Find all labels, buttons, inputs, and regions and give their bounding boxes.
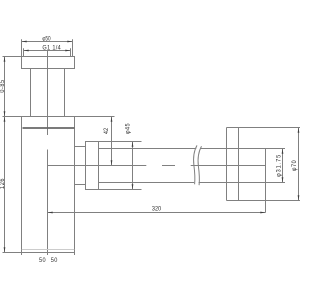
outlet stub bottom bbox=[75, 184, 86, 186]
dimension 42 bottom arrow bbox=[111, 160, 113, 165]
outer tube top bbox=[99, 141, 142, 143]
svg-text:42: 42 bbox=[104, 128, 110, 134]
svg-text:0-85: 0-85 bbox=[0, 79, 6, 92]
pipe centerline right segment bbox=[191, 165, 266, 167]
dimension 50 50 line bbox=[3, 252, 75, 254]
vertical centerline lower segment bbox=[47, 150, 49, 256]
dimension phi50 line bbox=[22, 41, 73, 43]
dimension phi31.75 bottom arrow bbox=[282, 177, 284, 182]
svg-text:50: 50 bbox=[51, 258, 58, 264]
cup right wall bbox=[74, 117, 76, 250]
cup bottom bbox=[22, 249, 75, 251]
dimension phi45 text bbox=[125, 123, 131, 134]
compression nut bbox=[86, 142, 99, 190]
pipe end edge bbox=[265, 149, 267, 213]
pipe bottom line right of break bbox=[199, 182, 266, 184]
dimension 0-85 text bbox=[0, 79, 6, 92]
wall flange front face bbox=[226, 128, 228, 201]
dimension phi45 bottom arrow bbox=[132, 184, 134, 189]
dimension phi45 top arrow bbox=[132, 142, 134, 147]
pipe centerline long segment bbox=[48, 165, 147, 167]
top flange top line extended to left dimension bbox=[3, 56, 22, 58]
dimension 42 top arrow bbox=[111, 117, 113, 122]
dimension phi50 text bbox=[42, 36, 50, 43]
dimension 320 left arrow bbox=[48, 212, 53, 214]
dimension 320 right arrow bbox=[260, 212, 265, 214]
dimension G1 1/4 line bbox=[24, 50, 71, 52]
tailpiece wall left bbox=[30, 69, 32, 117]
pipe break left curve bbox=[194, 145, 197, 184]
dimension phi70 text bbox=[292, 160, 298, 172]
pipe top line right of break bbox=[201, 148, 266, 150]
svg-text:φ31.75: φ31.75 bbox=[276, 154, 282, 177]
dimension phi31.75 line bbox=[282, 149, 284, 183]
dimension 320 text bbox=[152, 206, 162, 212]
vertical centerline upper segment bbox=[47, 51, 49, 136]
dimension 0-85 line bbox=[4, 57, 6, 117]
dimension 320 line bbox=[48, 212, 266, 214]
dimension G1 1/4 right arrow bbox=[65, 50, 70, 52]
svg-text:50: 50 bbox=[39, 258, 46, 264]
dimension 50 50 extension right bbox=[74, 250, 76, 256]
wall flange bottom edge with phi70 extension bbox=[227, 200, 301, 202]
dimension 126 text bbox=[0, 178, 6, 189]
dimension phi70 top arrow bbox=[298, 128, 300, 133]
dimension phi50 extension right bbox=[72, 39, 74, 56]
dimension 126 top arrow bbox=[4, 117, 6, 122]
dimension G1 1/4 extension left bbox=[23, 48, 25, 56]
dimension 126 bottom arrow bbox=[4, 247, 6, 252]
dimension phi31.75 top arrow bbox=[282, 149, 284, 154]
dimension 0-85 top arrow bbox=[4, 57, 6, 62]
dimension 42 text bbox=[104, 128, 110, 134]
dimension phi50 left arrow bbox=[22, 41, 27, 43]
top flange bbox=[22, 57, 75, 69]
svg-text:126: 126 bbox=[0, 178, 6, 189]
pipe break right curve bbox=[198, 146, 201, 185]
dimension phi31.75 extension bottom bbox=[266, 182, 286, 184]
tailpiece wall right bbox=[64, 69, 66, 117]
dimension phi50 right arrow bbox=[67, 41, 72, 43]
dimension 126 line bbox=[4, 117, 6, 253]
dimension G1 1/4 extension right bbox=[70, 48, 72, 56]
pipe centerline short dash bbox=[162, 165, 175, 167]
wall flange back face bbox=[238, 128, 240, 201]
svg-text:φ45: φ45 bbox=[125, 123, 131, 134]
dimension phi31.75 extension top bbox=[266, 148, 286, 150]
outlet stub top bbox=[75, 146, 86, 148]
cup top line with extensions bbox=[3, 116, 115, 118]
dimension 42 line bbox=[111, 117, 113, 166]
pipe top line left of break bbox=[99, 148, 197, 150]
dimension phi31.75 text bbox=[276, 154, 282, 177]
svg-text:φ70: φ70 bbox=[292, 160, 298, 172]
dimension 0-85 bottom arrow bbox=[4, 111, 6, 116]
pipe bottom line left of break bbox=[99, 182, 195, 184]
cup left wall bbox=[21, 117, 23, 250]
dimension 50 50 extension left bbox=[21, 250, 23, 256]
dimension G1 1/4 text bbox=[42, 45, 61, 51]
dimension G1 1/4 left arrow bbox=[24, 50, 29, 52]
wall flange top edge with phi70 extension bbox=[227, 127, 301, 129]
dimension 50 left text bbox=[39, 258, 46, 264]
dimension 50 right text bbox=[51, 258, 58, 264]
outer tube bottom bbox=[99, 189, 142, 191]
dimension phi50 extension left bbox=[21, 39, 23, 56]
dimension phi70 line bbox=[298, 128, 300, 201]
cup lid thick line bbox=[23, 127, 75, 129]
svg-text:320: 320 bbox=[152, 206, 162, 212]
dimension phi45 line bbox=[132, 142, 134, 190]
dimension phi70 bottom arrow bbox=[298, 195, 300, 200]
